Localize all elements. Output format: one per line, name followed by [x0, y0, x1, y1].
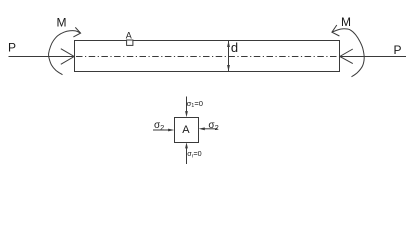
beam (bar) outline [75, 41, 340, 72]
point A marker square on beam [127, 40, 133, 45]
wire: right force line P [340, 56, 406, 58]
moment arc M (left) [49, 31, 81, 75]
svg-text:σr=0: σr=0 [187, 149, 201, 159]
arrowhead of left moment arc [73, 27, 80, 37]
svg-text:P: P [8, 41, 16, 55]
arrowhead of right force P [340, 49, 353, 64]
centerline (dash-dot axis) [76, 56, 338, 58]
svg-text:A: A [182, 124, 190, 136]
svg-text:σ2: σ2 [154, 120, 164, 132]
svg-text:P: P [394, 43, 402, 57]
arrowhead of left force P [61, 49, 74, 65]
dimension arrowhead top [227, 41, 230, 47]
top stress arrow (down) [186, 97, 188, 113]
svg-text:M: M [341, 15, 351, 29]
wire: left force line P [9, 56, 75, 58]
arrowhead of right moment arc [332, 25, 340, 36]
right stress arrow (left-pointing) [203, 128, 218, 130]
moment arc M (right) [332, 29, 364, 77]
svg-text:d: d [231, 40, 238, 55]
bottom stress arrow (up) [186, 148, 188, 164]
svg-text:σ2: σ2 [208, 120, 218, 132]
left stress arrow (right-pointing) [153, 129, 170, 131]
stress element square A [175, 118, 199, 143]
svg-text:σ1=0: σ1=0 [187, 99, 203, 109]
dimension line d [228, 41, 230, 71]
svg-text:M: M [57, 16, 67, 30]
svg-text:A: A [126, 31, 132, 41]
dimension arrowhead bottom [227, 65, 230, 71]
